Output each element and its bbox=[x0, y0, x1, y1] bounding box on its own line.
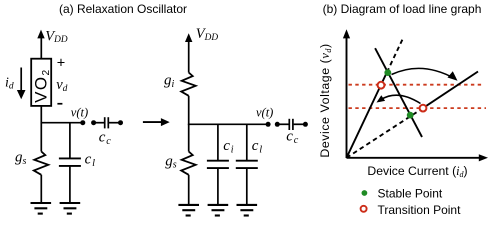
wire node to gs2 bbox=[188, 124, 190, 151]
id current arrow bbox=[17, 68, 26, 100]
wire box to node bbox=[40, 106, 42, 124]
x axis bbox=[347, 154, 489, 161]
wire cl2 to ground bbox=[246, 168, 248, 205]
wire cc right bbox=[109, 122, 121, 124]
ground 4 bbox=[208, 205, 229, 216]
transform arrow between circuits bbox=[143, 118, 170, 126]
svg-text:VDD: VDD bbox=[45, 28, 68, 45]
VO2 device box U1 bbox=[31, 59, 51, 106]
wire node to gs bbox=[40, 123, 42, 152]
wire cl to ground bbox=[69, 166, 71, 203]
svg-text:VO2: VO2 bbox=[32, 68, 53, 102]
wire gs2 to ground bbox=[188, 175, 190, 205]
wire ci to ground bbox=[217, 168, 219, 205]
svg-text:VDD: VDD bbox=[196, 26, 219, 43]
resistor gs2 zigzag bbox=[181, 152, 196, 175]
svg-text:gs: gs bbox=[165, 153, 177, 170]
wire to cc2 bbox=[277, 123, 288, 125]
legend transition circle bbox=[361, 206, 367, 212]
threshold line upper (red dashed) bbox=[349, 84, 483, 86]
capacitor Cl2 plates bbox=[236, 160, 258, 162]
ground 5 bbox=[237, 205, 258, 216]
svg-text:cl: cl bbox=[252, 138, 262, 155]
stable point dot 1 bbox=[384, 69, 391, 76]
ground 1 bbox=[31, 203, 52, 214]
svg-text:+: + bbox=[57, 55, 65, 71]
svg-text:ci: ci bbox=[223, 138, 233, 155]
ground 2 bbox=[60, 203, 81, 214]
svg-text:v(t): v(t) bbox=[256, 105, 273, 119]
wire node to cl bbox=[69, 123, 71, 159]
metallic branch dashed extension bbox=[347, 108, 424, 158]
transition point circle 2 bbox=[420, 105, 427, 112]
svg-text:gs: gs bbox=[15, 150, 27, 167]
wire gs to ground bbox=[40, 175, 42, 203]
svg-text:cc: cc bbox=[99, 129, 111, 147]
wire node to cl2 bbox=[246, 124, 248, 160]
cc port dot left bbox=[91, 120, 96, 125]
svg-text:Device Current (id): Device Current (id) bbox=[367, 164, 467, 179]
capacitor Cc plates bbox=[104, 117, 106, 128]
VDD arrow bbox=[37, 30, 44, 59]
load line bbox=[375, 48, 422, 137]
svg-text:v(t): v(t) bbox=[71, 105, 88, 119]
svg-text:cl: cl bbox=[85, 152, 95, 169]
legend stable dot bbox=[362, 190, 368, 196]
metallic branch solid bbox=[423, 72, 478, 109]
transition point circle 1 bbox=[378, 82, 385, 89]
node wire horizontal 2 bbox=[188, 123, 268, 125]
cc port dot right bbox=[118, 120, 123, 125]
svg-text:id: id bbox=[5, 76, 14, 92]
jump arrow lower bbox=[380, 95, 421, 103]
svg-text:cc: cc bbox=[286, 128, 298, 146]
wire to cc bbox=[94, 122, 104, 124]
svg-text:(b) Diagram of load line graph: (b) Diagram of load line graph bbox=[323, 2, 482, 16]
cc2 port dot left bbox=[275, 122, 280, 127]
jump arrow upper bbox=[392, 68, 455, 78]
cc2 port dot right bbox=[303, 122, 308, 127]
VDD arrow 2 bbox=[185, 33, 192, 72]
wire cc2 right bbox=[294, 123, 306, 125]
wire gi to node bbox=[188, 96, 190, 125]
capacitor Cc2 plates bbox=[288, 119, 290, 130]
node vt dot 2 bbox=[266, 122, 271, 127]
resistor gi zigzag bbox=[181, 73, 196, 96]
threshold line lower (red dashed) bbox=[349, 107, 487, 109]
y axis bbox=[343, 29, 350, 158]
insulating branch solid bbox=[347, 72, 387, 158]
svg-text:Device Voltage (vd): Device Voltage (vd) bbox=[318, 43, 333, 157]
svg-text:(a) Relaxation Oscillator: (a) Relaxation Oscillator bbox=[59, 2, 187, 16]
minus sign bbox=[57, 103, 62, 105]
wire node to ci bbox=[217, 124, 219, 160]
capacitor Cl plates bbox=[59, 157, 81, 159]
svg-text:vd: vd bbox=[56, 77, 67, 94]
ground 3 bbox=[178, 205, 199, 216]
resistor gs zigzag bbox=[34, 152, 49, 175]
svg-text:gi: gi bbox=[164, 73, 175, 90]
svg-text:Transition Point: Transition Point bbox=[378, 203, 462, 217]
svg-text:Stable Point: Stable Point bbox=[378, 186, 443, 200]
insulating branch dashed extension bbox=[387, 39, 403, 73]
stable point dot 2 bbox=[407, 112, 414, 119]
node wire horizontal bbox=[41, 122, 83, 124]
node vt dot bbox=[80, 120, 85, 125]
capacitor Ci plates bbox=[207, 160, 229, 162]
